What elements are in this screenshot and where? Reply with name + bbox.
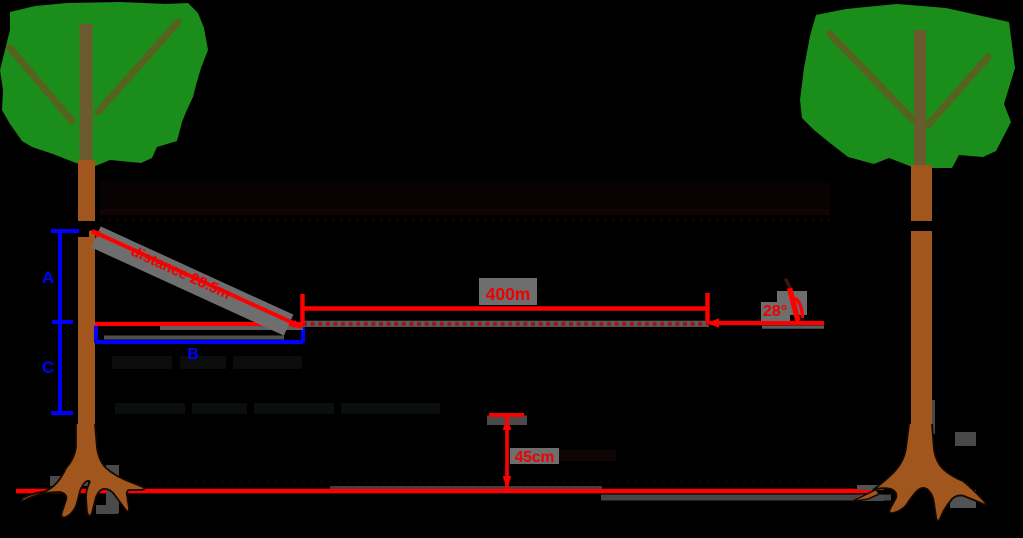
- svg-text:400m: 400m: [486, 284, 531, 304]
- svg-text:45cm: 45cm: [515, 449, 555, 466]
- svg-text:A: A: [42, 268, 54, 287]
- svg-text:B: B: [187, 346, 199, 363]
- svg-text:C: C: [42, 358, 54, 377]
- svg-text:28°: 28°: [763, 303, 787, 320]
